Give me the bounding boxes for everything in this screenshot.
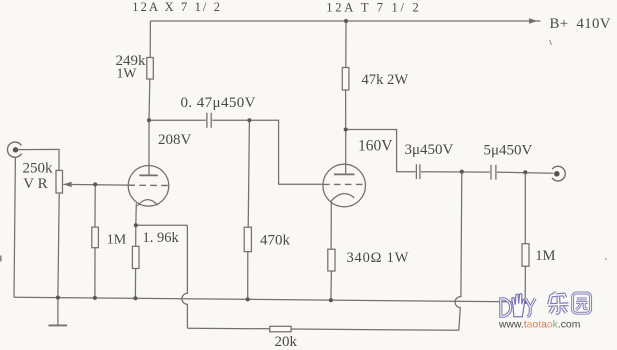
wire R1 to node 208V	[148, 79, 151, 120]
wire node 160V to V2 plate	[345, 130, 347, 175]
wire ground stem	[57, 298, 59, 325]
wire 1M to bus end	[524, 266, 526, 302]
wire feedback left vertical with hop over bus	[182, 225, 188, 328]
wire feedback bottom right segment	[291, 329, 459, 330]
triode V2 grid (dashed)	[323, 183, 366, 185]
junction dot bus/340ohm	[329, 298, 333, 302]
wire 470k to ground bus	[247, 252, 249, 300]
svg-text:12A T 7 1/ 2: 12A T 7 1/ 2	[326, 0, 421, 14]
wire node 208V to V1 plate	[148, 120, 150, 175]
svg-text:250k: 250k	[23, 161, 54, 177]
watermark letter D	[501, 299, 511, 316]
junction dot bus/1.96k	[133, 296, 137, 300]
wire 470k drop	[248, 120, 249, 227]
svg-text:1M: 1M	[107, 233, 127, 248]
junction dot bus/1M right	[523, 300, 527, 304]
svg-text:0. 47μ450V: 0. 47μ450V	[181, 95, 256, 111]
wire V2 anode to C2	[346, 130, 416, 172]
svg-text:1. 96k: 1. 96k	[143, 230, 180, 246]
capacitor C3 5u450V plates	[490, 165, 492, 180]
junction dot node 208V	[147, 118, 151, 122]
capacitor C2 3u450V plates	[415, 164, 417, 179]
resistor R6 1.96k body	[132, 246, 139, 268]
output jack outer ring	[552, 166, 565, 181]
triode V1 grid (dashed)	[128, 184, 168, 186]
svg-text:340Ω 1W: 340Ω 1W	[347, 250, 410, 266]
wire feedback bottom left segment	[187, 327, 269, 330]
resistor R7 20k body	[270, 326, 291, 332]
wire coupling C1 right to V2 grid	[212, 120, 322, 184]
wire feedback right vertical with hop over bus	[455, 172, 462, 331]
triode V2 cathode arc	[330, 194, 354, 202]
wire R5 to bus	[94, 248, 96, 298]
wire output 1M drop	[524, 172, 526, 243]
scan speck left edge	[0, 256, 2, 262]
watermark char LE	[548, 293, 569, 314]
wire 340ohm to bus	[330, 271, 333, 300]
svg-text:3μ450V: 3μ450V	[405, 142, 454, 158]
resistor R5 1M body	[92, 227, 99, 248]
wire 47k branch upper	[345, 21, 347, 68]
watermark hand icon	[512, 294, 525, 317]
svg-text:470k: 470k	[260, 233, 291, 249]
wire input jack to pot	[18, 149, 59, 170]
output jack center pin	[554, 171, 560, 177]
junction dot C3/1M	[523, 170, 527, 174]
watermark letter Y	[526, 298, 536, 316]
wire C3 to output jack	[497, 172, 553, 173]
triode V1 envelope	[128, 166, 169, 207]
junction dot wiper/1M	[93, 182, 97, 186]
wire 1.96k upper	[135, 225, 137, 246]
junction dot bus/470k	[246, 297, 250, 301]
wire cathode to feedback corner	[136, 224, 188, 226]
B+ arrowhead	[529, 18, 538, 23]
triode V1 cathode arc	[137, 200, 157, 206]
input jack outer ring	[7, 142, 21, 157]
wire B+ top rail	[150, 20, 540, 22]
svg-text:5μ450V: 5μ450V	[484, 142, 533, 158]
ground symbol bar	[49, 324, 68, 326]
wire wiper to V1 grid	[63, 183, 128, 186]
wire input jack ground drop	[14, 157, 15, 297]
wire 1.96k to bus	[134, 269, 136, 299]
wire pot bottom to bus	[58, 193, 59, 298]
wire C2 to C3	[421, 171, 490, 173]
junction dot V1 cathode	[134, 223, 138, 227]
wire V2 cathode lead	[330, 202, 332, 250]
svg-text:B+ 410V: B+ 410V	[550, 16, 611, 32]
junction dot node 160V	[344, 127, 348, 131]
junction dot node B+ branch	[344, 19, 348, 23]
triode V1 plate	[139, 174, 158, 176]
svg-text:208V: 208V	[158, 132, 192, 148]
junction dot feedback tap	[460, 170, 464, 174]
junction dot bus/pot	[56, 296, 60, 300]
wire anode V1 upper	[149, 21, 151, 58]
triode V2 envelope	[323, 164, 366, 207]
capacitor C1 0.47u450V plates	[206, 113, 208, 128]
resistor R4 1M body	[522, 244, 529, 267]
svg-text:1W: 1W	[117, 65, 137, 80]
svg-text:47k 2W: 47k 2W	[362, 72, 409, 88]
wire R2 to node 160V	[345, 90, 347, 130]
triode V2 plate	[334, 173, 355, 175]
input jack center pin	[13, 147, 18, 152]
resistor R1 249k 1W body	[147, 58, 154, 80]
svg-text:12A X 7 1/ 2: 12A X 7 1/ 2	[132, 0, 222, 14]
resistor R3 470k body	[244, 227, 251, 252]
svg-text:20k: 20k	[275, 334, 298, 350]
resistor R2 47k 2W body	[342, 68, 349, 91]
resistor R8 340ohm 1W body	[328, 249, 335, 271]
junction dot bus/1M left	[93, 296, 97, 300]
svg-text:V R: V R	[23, 176, 47, 192]
watermark char YUAN	[573, 293, 591, 313]
scan speck right side	[605, 258, 607, 260]
scan speck near B+	[550, 40, 552, 45]
wire V1 cathode lead	[135, 204, 138, 226]
svg-text:160V: 160V	[358, 137, 393, 154]
wire ground bus	[14, 297, 525, 302]
wire grid 1M drop	[94, 184, 96, 227]
wiper arrowhead	[63, 182, 71, 187]
junction dot coupling/470k	[247, 118, 251, 122]
svg-text:1M: 1M	[535, 248, 555, 264]
potentiometer VR 250k body	[56, 170, 63, 193]
wire coupling C1 left	[149, 119, 206, 121]
svg-text:www.taotaok.com: www.taotaok.com	[498, 320, 580, 331]
